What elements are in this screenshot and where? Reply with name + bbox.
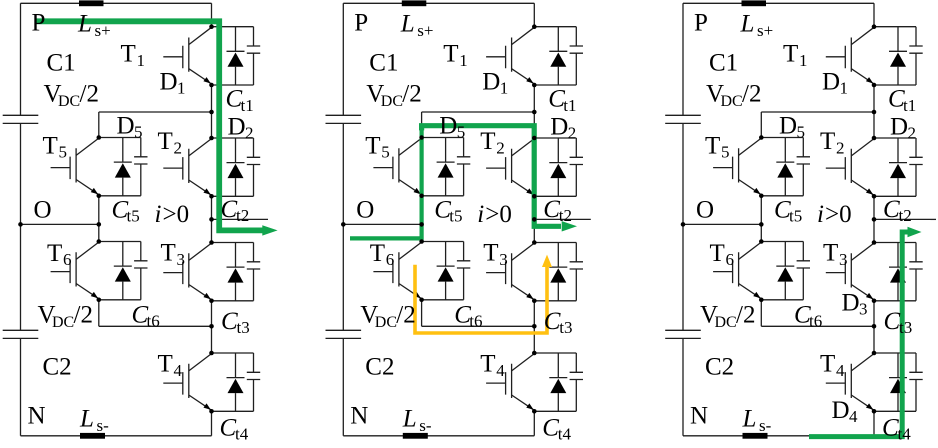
svg-text:4: 4 bbox=[849, 407, 858, 426]
svg-text:3: 3 bbox=[859, 300, 868, 319]
svg-text:D: D bbox=[842, 290, 860, 317]
svg-text:D: D bbox=[832, 397, 850, 424]
